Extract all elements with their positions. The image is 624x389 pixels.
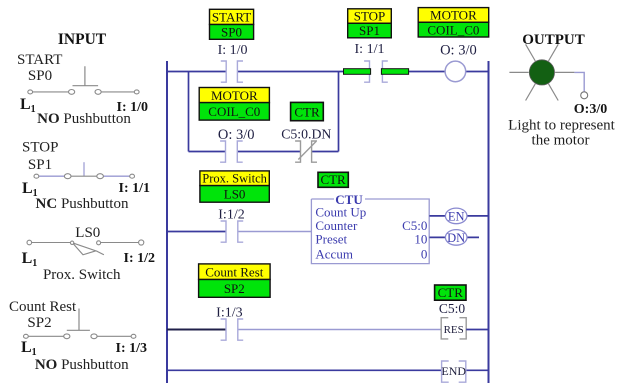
tag box CTR (reset) [435,285,466,300]
contact I:1/2 [221,221,244,242]
svg-text:NC Pushbutton: NC Pushbutton [36,196,129,212]
svg-text:COIL_C0: COIL_C0 [208,104,260,119]
svg-text:Preset: Preset [315,232,347,247]
svg-text:Count Rest: Count Rest [205,264,264,279]
svg-text:LS0: LS0 [75,225,100,241]
svg-text:SP0: SP0 [221,25,242,40]
contact I:1/1 [364,61,388,82]
svg-text:OUTPUT: OUTPUT [522,32,585,48]
tag box MOTOR/COIL_C0 (top) [418,8,489,38]
wire lamp elbow [574,72,584,91]
pushbutton SP2 contacts wire [24,334,136,339]
svg-text:Prox. Switch: Prox. Switch [202,172,267,186]
svg-text:SP1: SP1 [28,157,52,173]
svg-text:Prox. Switch: Prox. Switch [43,267,121,283]
svg-text:Count Rest: Count Rest [9,299,77,315]
svg-text:I: 1/1: I: 1/1 [355,42,385,57]
svg-text:10: 10 [414,232,427,247]
tag box CTR (rung 1 branch) [291,102,324,120]
svg-text:INPUT: INPUT [58,31,107,48]
svg-text:EN: EN [448,209,465,223]
svg-text:I: 1/0: I: 1/0 [218,43,248,58]
svg-text:STOP: STOP [354,9,386,24]
svg-text:LS0: LS0 [224,186,246,201]
CTU function block [311,192,429,264]
wire branch right vertical [338,72,340,152]
power rail left [166,61,168,383]
tag box STOP/SP1 [348,9,392,39]
svg-text:L1: L1 [21,339,37,358]
svg-text:L1: L1 [20,96,36,115]
pushbutton SP0 plunger [73,66,99,85]
lamp rays [509,44,574,100]
END instruction [441,361,466,382]
svg-text:START: START [17,52,62,68]
pushbutton SP0 contacts wire [28,90,139,95]
svg-text:I: 1/1: I: 1/1 [119,181,151,196]
svg-text:O:3/0: O:3/0 [574,102,607,117]
contact C5:0.DN (NC) [295,141,317,162]
svg-text:NO Pushbutton: NO Pushbutton [35,357,129,373]
wire branch bottom [189,151,339,153]
svg-text:SP2: SP2 [27,315,51,331]
svg-text:CTR: CTR [294,104,320,119]
svg-text:I: 1/2: I: 1/2 [124,251,156,266]
svg-text:MOTOR: MOTOR [211,88,258,103]
svg-text:DN: DN [447,231,465,245]
svg-text:MOTOR: MOTOR [430,8,477,23]
power rail right [488,61,490,383]
svg-text:CTR: CTR [438,285,464,300]
svg-text:CTR: CTR [320,172,346,187]
svg-text:C5:0.DN: C5:0.DN [281,127,331,142]
svg-text:I: 1/3: I: 1/3 [116,341,148,356]
svg-text:I:1/3: I:1/3 [216,306,242,321]
wire EN stub [429,215,488,217]
contact O:3/0 (branch) [220,141,243,162]
prox switch LS0 symbol [27,240,144,255]
wire DN stub [429,236,479,238]
power-flow highlight bars I:1/1 [344,69,371,75]
lamp (light to represent motor) [529,60,554,85]
tag box MOTOR/COIL_C0 (branch) [199,88,269,121]
svg-text:SP2: SP2 [224,281,245,296]
coil O:3/0 [445,61,466,82]
tag box Prox. Switch/LS0 [200,171,269,202]
svg-text:STOP: STOP [22,140,58,156]
wire rung 4 [167,369,489,371]
pushbutton SP1 plunger [83,162,85,176]
RES instruction [441,318,466,339]
svg-text:C5:0: C5:0 [439,301,466,316]
pushbutton SP2 plunger [67,309,90,331]
wire rung 1 [167,71,489,73]
wire rung 3 middle [238,329,442,331]
coil EN [445,208,467,224]
svg-text:END: END [441,364,466,378]
wire rung 3 left (dark) [167,329,226,331]
svg-text:NO Pushbutton: NO Pushbutton [37,111,131,127]
wire rung 3 right [466,329,488,331]
wire branch left vertical [188,72,190,152]
wire rung 2 right [238,231,312,233]
svg-text:COIL_C0: COIL_C0 [427,22,479,37]
svg-text:SP1: SP1 [359,23,380,38]
coil DN [445,230,467,246]
svg-text:L1: L1 [22,250,38,269]
tag box START/SP0 [210,9,254,39]
svg-text:the motor: the motor [532,133,590,149]
pushbutton SP1 contacts wire [34,174,135,179]
tag box CTR (counter) [318,172,348,187]
svg-text:SP0: SP0 [28,68,52,84]
contact I:1/0 [221,61,243,82]
svg-text:RES: RES [444,324,464,336]
svg-text:I:1/2: I:1/2 [218,208,244,223]
svg-text:START: START [212,10,251,25]
contact I:1/3 [221,319,244,340]
tag box Count Rest/SP2 [199,264,271,297]
svg-text:0: 0 [421,246,428,261]
node O:3/0 terminal [581,92,588,99]
svg-text:Accum: Accum [315,246,353,261]
svg-text:O: 3/0: O: 3/0 [440,43,477,59]
wire rung 2 left [167,231,226,233]
svg-text:Light to represent: Light to represent [508,118,615,134]
